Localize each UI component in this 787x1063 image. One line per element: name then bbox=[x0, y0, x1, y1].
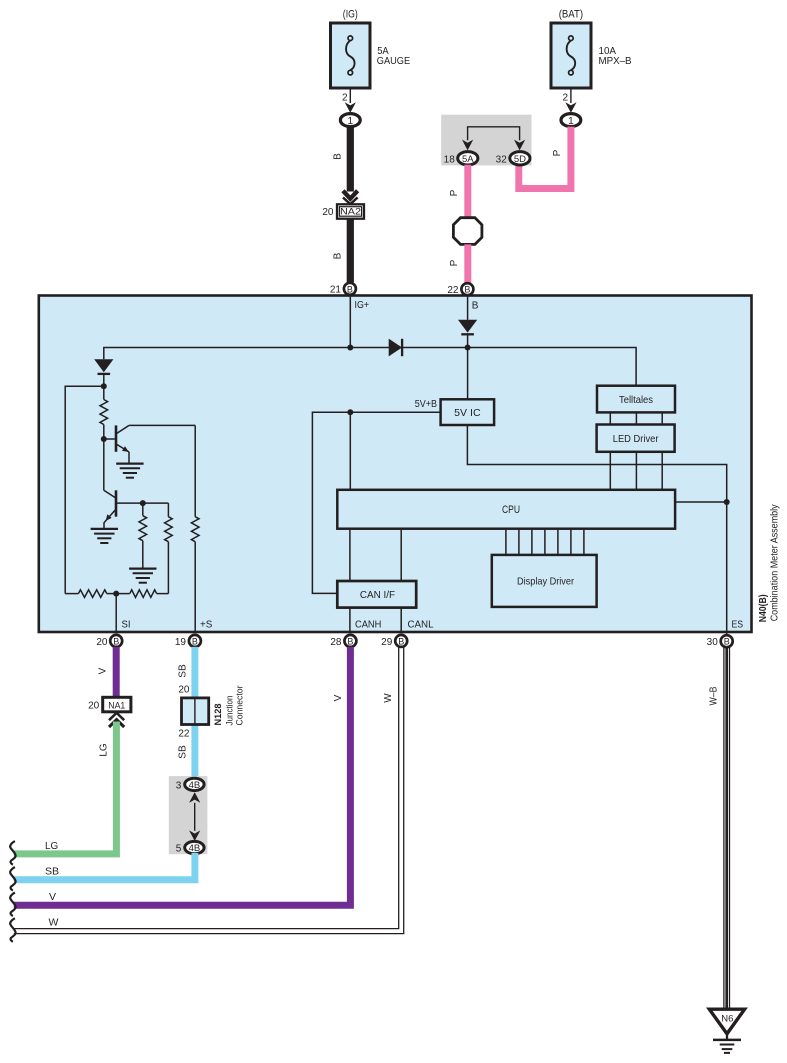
svg-text:Display Driver: Display Driver bbox=[517, 576, 574, 588]
svg-text:29: 29 bbox=[381, 637, 393, 648]
terminal 5 (4B) bbox=[176, 841, 204, 854]
svg-text:+S: +S bbox=[200, 620, 213, 631]
svg-text:5V+B: 5V+B bbox=[415, 399, 438, 410]
resistor R3 bbox=[165, 503, 173, 593]
svg-text:LG: LG bbox=[99, 743, 110, 756]
svg-text:18: 18 bbox=[444, 154, 456, 165]
svg-text:N40(B): N40(B) bbox=[758, 594, 769, 622]
node IG+ bbox=[350, 296, 369, 348]
svg-text:MPX–B: MPX–B bbox=[599, 55, 632, 67]
node A junction bbox=[65, 383, 107, 593]
svg-text:19: 19 bbox=[175, 637, 187, 648]
octagon splice bbox=[453, 218, 482, 245]
svg-text:P: P bbox=[552, 149, 563, 156]
svg-text:5V IC: 5V IC bbox=[454, 407, 481, 419]
svg-text:B: B bbox=[724, 637, 730, 647]
svg-text:B: B bbox=[113, 636, 119, 646]
connector NA1 pin 20 bbox=[88, 697, 131, 712]
wire continuation squiggle V bbox=[10, 893, 15, 917]
svg-text:LED Driver: LED Driver bbox=[613, 433, 659, 445]
svg-text:4B: 4B bbox=[189, 843, 201, 854]
wire collector rail to +S column bbox=[129, 424, 195, 426]
svg-text:W: W bbox=[49, 916, 59, 928]
telltales U2 bbox=[597, 386, 675, 413]
node B bbox=[468, 296, 479, 320]
svg-text:(BAT): (BAT) bbox=[559, 9, 583, 21]
svg-text:2: 2 bbox=[342, 93, 348, 104]
wires CAN I/F to pins bbox=[350, 608, 401, 633]
LED driver U3 bbox=[597, 425, 675, 452]
wire P pink 5A to octagon bbox=[449, 165, 468, 218]
svg-text:NA2: NA2 bbox=[340, 207, 361, 218]
svg-text:SB: SB bbox=[45, 866, 59, 878]
svg-text:IG+: IG+ bbox=[355, 300, 370, 311]
svg-text:SB: SB bbox=[177, 664, 188, 678]
wire continuation squiggle LG bbox=[10, 841, 15, 865]
svg-text:(IG): (IG) bbox=[343, 9, 358, 21]
wire W white pin 29 down and left bbox=[14, 647, 404, 934]
svg-text:P: P bbox=[449, 259, 460, 266]
svg-text:Telltales: Telltales bbox=[619, 394, 653, 406]
svg-text:CPU: CPU bbox=[502, 504, 520, 516]
ground N6 bbox=[709, 1009, 744, 1053]
label N40(B) bbox=[758, 594, 769, 622]
ground G1 bbox=[116, 464, 143, 478]
svg-text:N128: N128 bbox=[213, 704, 224, 726]
ground G2 bbox=[91, 529, 118, 543]
combination meter assembly box N40(B) bbox=[39, 296, 752, 633]
connector pin 1 (BAT) bbox=[561, 114, 581, 127]
svg-text:20: 20 bbox=[88, 701, 100, 712]
transistor Q2 bbox=[104, 490, 143, 529]
diode D3 left column bbox=[94, 359, 113, 386]
svg-text:B: B bbox=[333, 153, 344, 160]
pin labels inside box bbox=[122, 620, 744, 631]
svg-text:22: 22 bbox=[447, 285, 459, 296]
svg-text:P: P bbox=[449, 189, 460, 196]
svg-text:20: 20 bbox=[322, 207, 334, 218]
diode D1 on B line bbox=[458, 320, 477, 400]
svg-text:CANH: CANH bbox=[355, 620, 381, 631]
svg-text:28: 28 bbox=[330, 637, 342, 648]
junction connector N128 bbox=[177, 686, 245, 759]
CAN I/F U6 bbox=[337, 581, 416, 608]
wires LED driver to CPU bbox=[610, 452, 662, 490]
display driver U5 bbox=[492, 555, 597, 607]
pin 29 (B) bbox=[381, 635, 407, 648]
wire P pink octagon to pin 22 bbox=[449, 244, 468, 283]
node B1 junction bbox=[101, 436, 115, 442]
svg-text:2: 2 bbox=[562, 93, 568, 104]
wire W-B pin 30 to ground bbox=[709, 648, 730, 1009]
5V IC U1 bbox=[441, 399, 495, 425]
fuse F2 (BAT) 10A MPX-B bbox=[551, 9, 632, 89]
resistor R2 bbox=[139, 503, 147, 567]
pin 28 (B) bbox=[330, 635, 356, 648]
label combination meter assembly bbox=[770, 504, 781, 621]
svg-text:N6: N6 bbox=[721, 1014, 733, 1025]
svg-text:1: 1 bbox=[568, 116, 574, 127]
svg-text:20: 20 bbox=[178, 684, 190, 695]
svg-text:Connector: Connector bbox=[235, 686, 246, 726]
wires CPU to CAN I/F bbox=[350, 529, 401, 581]
terminal 32 (5D) bbox=[496, 152, 530, 166]
5V+B rail bbox=[312, 399, 440, 593]
svg-text:B: B bbox=[192, 636, 198, 646]
pin 19 (B) bbox=[175, 635, 201, 648]
svg-text:W: W bbox=[383, 693, 394, 703]
pin 22 (B) bbox=[447, 283, 473, 296]
chevrons below NA1 bbox=[109, 713, 124, 727]
splice block shading 4B bbox=[169, 776, 208, 854]
svg-text:Combination Meter Assembly: Combination Meter Assembly bbox=[770, 504, 781, 621]
wires telltales to LED driver bbox=[610, 412, 662, 424]
wire V purple pin 28 down and left bbox=[14, 647, 351, 905]
transistor Q1 bbox=[116, 425, 129, 463]
link wire 5A to 5D bbox=[462, 127, 525, 151]
wire 5V IC to ES column bbox=[467, 425, 729, 634]
svg-text:B: B bbox=[347, 636, 353, 646]
svg-text:V: V bbox=[333, 694, 344, 701]
svg-text:5A: 5A bbox=[462, 154, 474, 165]
svg-text:LG: LG bbox=[45, 840, 58, 852]
link wire 3 to 5 bbox=[189, 792, 200, 841]
wire continuation squiggle SB bbox=[10, 867, 15, 891]
CPU U4 bbox=[337, 490, 726, 529]
terminal 3 (4B) bbox=[176, 778, 204, 791]
connector pin 1 (IG) bbox=[340, 114, 360, 127]
svg-text:B: B bbox=[333, 252, 344, 259]
svg-text:21: 21 bbox=[330, 285, 342, 296]
fuse F1 (IG) 5A GAUGE bbox=[331, 9, 411, 89]
svg-text:B: B bbox=[464, 285, 470, 295]
wire V purple pin 20 to NA1 bbox=[98, 647, 117, 698]
pin 21 (B) bbox=[330, 283, 356, 296]
svg-text:4B: 4B bbox=[189, 780, 201, 791]
wire fuse IG to connector pin 1 bbox=[342, 88, 356, 113]
pin 20 (B) bbox=[96, 635, 122, 648]
svg-text:CANL: CANL bbox=[408, 620, 434, 631]
svg-text:22: 22 bbox=[178, 729, 190, 740]
svg-text:1: 1 bbox=[348, 116, 354, 127]
svg-text:CAN I/F: CAN I/F bbox=[360, 589, 395, 601]
node SI junction bbox=[113, 591, 119, 633]
terminal 18 (5A) bbox=[444, 152, 478, 166]
svg-text:30: 30 bbox=[707, 637, 719, 648]
wires CPU to display driver bbox=[506, 529, 584, 555]
svg-text:20: 20 bbox=[96, 637, 108, 648]
svg-text:5: 5 bbox=[176, 844, 182, 855]
wire SB pin 19 to 4B bbox=[177, 647, 195, 780]
svg-text:ES: ES bbox=[732, 620, 744, 631]
svg-text:NA1: NA1 bbox=[108, 700, 125, 711]
wire main horizontal rail bbox=[104, 345, 636, 386]
svg-text:SI: SI bbox=[122, 620, 131, 631]
wire node B1 down bbox=[103, 439, 105, 490]
wire fuse BAT to connector pin 1 bbox=[562, 88, 576, 113]
ground G3 bbox=[129, 569, 156, 583]
svg-text:SB: SB bbox=[177, 745, 188, 759]
wire continuation squiggle W bbox=[10, 918, 15, 942]
svg-text:5D: 5D bbox=[514, 154, 526, 165]
pin 30 (B) bbox=[707, 635, 733, 648]
resistor R4 on +S column bbox=[191, 425, 199, 633]
svg-text:B: B bbox=[472, 301, 479, 312]
resistor R6 horizontal bbox=[116, 590, 168, 598]
svg-text:W–B: W–B bbox=[709, 686, 720, 705]
wire LG green NA1 down and left bbox=[14, 722, 117, 854]
svg-text:GAUGE: GAUGE bbox=[377, 55, 410, 67]
svg-text:V: V bbox=[98, 667, 109, 674]
wire B black from pin 1 to NA2 bbox=[333, 127, 358, 205]
svg-text:B: B bbox=[347, 284, 353, 294]
resistor R1 bbox=[100, 386, 108, 439]
svg-text:V: V bbox=[49, 891, 56, 903]
wire SB from 4B down and left bbox=[14, 853, 195, 880]
svg-text:3: 3 bbox=[176, 780, 182, 791]
junction block shading bbox=[441, 115, 531, 166]
svg-text:B: B bbox=[398, 636, 404, 646]
node C junction bbox=[140, 500, 169, 506]
svg-text:32: 32 bbox=[496, 154, 508, 165]
wire B black from NA2 to pin 21 bbox=[333, 219, 354, 283]
connector NA2 pin 20 bbox=[322, 204, 364, 218]
resistor R5 horizontal bbox=[65, 590, 116, 598]
wire P pink from BAT pin 1 to 5D bbox=[519, 127, 571, 189]
diode D2 on rail bbox=[389, 339, 402, 357]
